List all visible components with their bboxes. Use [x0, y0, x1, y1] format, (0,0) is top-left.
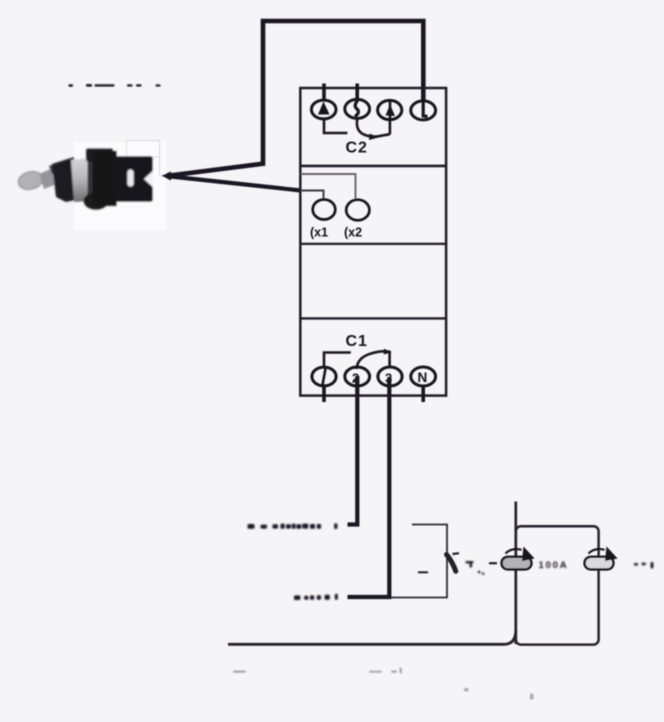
wire lower branch to voltage link — [166, 176, 301, 191]
svg-text:C2: C2 — [346, 140, 368, 157]
terminal T2 (C2) — [345, 99, 370, 118]
wire from key switch to supply (fork) — [166, 21, 423, 191]
meter box outline — [300, 88, 446, 396]
terminal 1 (C1) — [312, 367, 336, 386]
supply line vertical — [514, 502, 517, 645]
blade tick — [453, 552, 460, 555]
key switch photo — [16, 141, 166, 231]
dark band — [88, 158, 95, 201]
main switch box — [391, 525, 447, 598]
blurred caption text top-left — [69, 84, 161, 87]
svg-text:(x1: (x1 — [310, 226, 328, 240]
svg-text:C1: C1 — [346, 333, 368, 350]
divider 2 — [300, 243, 446, 245]
faint ghost marks bottom — [233, 668, 533, 700]
svg-text:100A: 100A — [539, 560, 569, 571]
C2 link bracket — [324, 118, 390, 137]
top tab — [86, 149, 113, 162]
key shaft — [39, 168, 57, 189]
voltage terminal x2 — [346, 200, 369, 221]
svg-text:(x2: (x2 — [344, 226, 362, 240]
cylinder body — [71, 158, 91, 202]
C2 terminal stubs — [324, 84, 357, 101]
switch blade — [447, 555, 456, 572]
key head — [16, 169, 44, 192]
divider 3 — [300, 317, 446, 319]
terminal 2 (C1) — [345, 367, 370, 386]
bottom blob — [84, 192, 109, 210]
blurred label outgoing — [294, 594, 338, 600]
svg-text:N: N — [418, 370, 428, 385]
terminal T3 (C2) — [378, 100, 402, 119]
bottom neutral wire — [228, 630, 516, 644]
small marks near blade — [466, 561, 485, 575]
voltage link wire upper — [300, 174, 355, 199]
fuse arrow 2 — [585, 547, 618, 570]
face block — [115, 157, 153, 202]
small minus mark — [418, 571, 428, 573]
key slot — [128, 170, 134, 187]
wire from terminal 3 to switch — [348, 377, 390, 597]
terminal T1 (C2) — [311, 100, 336, 119]
wire from terminal 2 to lighting circuit — [348, 376, 358, 525]
blurred label lighting circuit — [248, 523, 338, 529]
voltage terminal x1 — [313, 200, 336, 220]
divider 1 — [300, 165, 446, 168]
dashed connector — [489, 562, 497, 564]
terminal T4 L (C2) — [411, 101, 436, 120]
wire upper branch to L terminal — [166, 21, 423, 176]
C1 link bracket — [324, 351, 390, 369]
terminal N (C1) — [411, 367, 436, 386]
switch bolster dark — [49, 162, 62, 174]
blurred label load — [634, 562, 654, 569]
wire tip — [161, 172, 171, 181]
C1 terminal stubs below — [324, 386, 423, 403]
terminal 3 (C1) — [378, 367, 402, 386]
main breaker box — [516, 526, 599, 644]
voltage link wire lower — [300, 191, 323, 199]
fuse arrow 1 — [502, 547, 535, 570]
black front nut — [52, 157, 75, 202]
rear block — [93, 151, 117, 206]
